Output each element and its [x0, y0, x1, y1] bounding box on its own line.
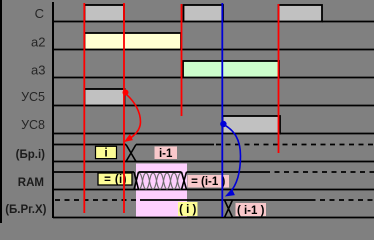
row (Бр.i) baseline: [53, 161, 374, 163]
red guide line t1: [83, 3, 85, 213]
(Бр.i) value box i: [96, 146, 117, 158]
svg-text:a3: a3: [31, 62, 45, 77]
red guide line t4 (at C pulse3 rise): [278, 4, 280, 153]
axis (time axis vertical line): [52, 2, 54, 218]
svg-text:C: C: [35, 6, 44, 21]
(Б.Рг.Х) top line dashed right: [311, 199, 374, 201]
(Б.Рг.Х) transition X: [225, 200, 233, 218]
row a2 baseline: [53, 49, 374, 51]
row УС5 baseline: [53, 105, 374, 107]
RAM transition X1: [134, 172, 139, 190]
RAM value box = (i-1): [188, 175, 230, 188]
svg-text:= (i-1 ): = (i-1 ): [191, 176, 225, 188]
blue arrow УС8 to (Б.Рг.Х): [225, 125, 241, 193]
pink highlight region: [136, 164, 187, 218]
svg-text:a2: a2: [31, 34, 45, 49]
svg-text:( i-1 ): ( i-1 ): [237, 205, 265, 217]
RAM value box = (i): [98, 173, 132, 185]
row a3 baseline: [53, 77, 374, 79]
C pulse 3: [279, 5, 323, 22]
(Бр.i) value box i-1: [155, 147, 178, 160]
svg-text:УС5: УС5: [21, 90, 45, 104]
svg-text:RAM: RAM: [18, 177, 44, 189]
(Б.Рг.Х) top line solid mid: [140, 199, 311, 201]
svg-text:i: i: [104, 146, 107, 160]
RAM bus top line solid left: [53, 171, 134, 173]
row C baseline: [53, 21, 374, 23]
УС5 pulse: [85, 89, 125, 106]
blue guide line: [221, 3, 223, 217]
RAM bus top line solid mid: [139, 171, 266, 173]
(Б.Рг.Х) value box (i-1): [236, 203, 267, 216]
svg-text:(Бр.i): (Бр.i): [16, 149, 46, 161]
red guide line t3: [181, 4, 183, 116]
УС8 pulse: [223, 116, 281, 134]
(Бр.i) bus top line solid after X: [136, 144, 214, 146]
svg-text:УС8: УС8: [21, 118, 45, 132]
left border: [0, 0, 2, 223]
(Бр.i) transition X: [126, 145, 136, 162]
row (Б.Рг.Х) baseline: [53, 217, 374, 219]
(Бр.i) bus top line dashed right: [216, 144, 374, 146]
red dot on УС5 falling edge: [123, 90, 129, 96]
RAM crosshatch (changing data): [139, 173, 181, 189]
a2 pulse: [85, 33, 182, 50]
(Б.Рг.Х) value box (i): [178, 202, 198, 216]
red arrow УС5 to (Бр.i): [126, 94, 141, 139]
blue dot on УС8 rising edge: [220, 121, 226, 127]
C pulse 2: [184, 5, 224, 22]
row RAM baseline: [53, 189, 374, 191]
C pulse 1: [85, 5, 125, 22]
svg-text:(Б.Рг.Х): (Б.Рг.Х): [5, 204, 46, 216]
row УС8 baseline: [53, 133, 374, 135]
RAM transition X2: [182, 172, 187, 190]
red guide line t2: [123, 3, 125, 213]
a3 pulse: [183, 61, 279, 78]
RAM bus top line dashed right: [265, 171, 374, 173]
svg-text:i-1: i-1: [159, 148, 173, 160]
svg-text:( i ): ( i ): [179, 204, 196, 216]
(Бр.i) bus top line solid left: [53, 144, 126, 146]
(Б.Рг.Х) top line dashed left: [55, 199, 140, 201]
